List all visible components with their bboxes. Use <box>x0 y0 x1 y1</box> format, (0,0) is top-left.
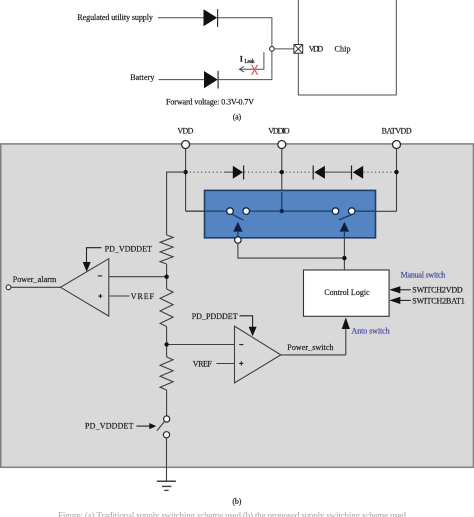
svg-text:SWITCH2VDD: SWITCH2VDD <box>412 286 463 295</box>
svg-text:BATVDD: BATVDD <box>382 126 412 135</box>
svg-text:VDDIO: VDDIO <box>268 126 290 135</box>
svg-text:VDD: VDD <box>177 126 193 135</box>
svg-text:(b): (b) <box>232 497 241 506</box>
svg-text:Battery: Battery <box>130 73 154 82</box>
svg-text:Power_switch: Power_switch <box>287 343 333 352</box>
svg-text:Control Logic: Control Logic <box>324 288 370 297</box>
svg-text:Anto switch: Anto switch <box>352 326 390 335</box>
svg-text:VREF: VREF <box>131 292 155 301</box>
svg-text:Power_alarm: Power_alarm <box>13 275 57 284</box>
svg-text:Leak: Leak <box>244 59 254 65</box>
svg-text:VREF: VREF <box>193 359 213 368</box>
svg-text:Manual switch: Manual switch <box>401 271 446 280</box>
svg-text:Chip: Chip <box>335 45 351 54</box>
svg-text:PD_VDDDET: PD_VDDDET <box>105 244 152 253</box>
svg-text:I: I <box>240 55 243 64</box>
svg-text:SWITCH2BAT1: SWITCH2BAT1 <box>412 297 464 306</box>
svg-text:(a): (a) <box>233 113 242 122</box>
svg-text:Figure: (a) Traditional supply: Figure: (a) Traditional supply switching… <box>58 510 407 517</box>
svg-text:Regulated utility supply: Regulated utility supply <box>77 13 152 22</box>
svg-text:Forward voltage: 0.3V-0.7V: Forward voltage: 0.3V-0.7V <box>166 97 254 106</box>
svg-text:VDD: VDD <box>309 45 324 54</box>
svg-text:PD_PDDDET: PD_PDDDET <box>192 312 238 321</box>
svg-text:PD_VDDDET: PD_VDDDET <box>85 422 134 431</box>
